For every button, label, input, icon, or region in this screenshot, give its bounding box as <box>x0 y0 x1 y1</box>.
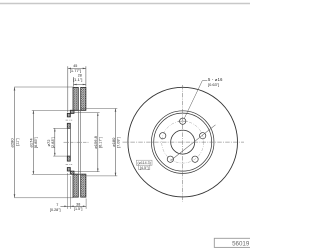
dim 7 extension left <box>67 173 69 209</box>
hat outer circle <box>151 111 214 174</box>
horizontal centerline <box>123 141 245 143</box>
dim 45 extension left <box>67 66 69 112</box>
dim 45 line <box>68 67 86 69</box>
svg-text:⌀280: ⌀280 <box>10 138 15 148</box>
arrow O156.8 top <box>97 113 99 116</box>
bolt hole center dash bottom <box>66 163 73 165</box>
arrow 45 right <box>83 68 86 70</box>
dim O280 line <box>14 87 16 197</box>
dim O156.8 top extension <box>74 112 99 114</box>
svg-text:7: 7 <box>56 203 58 207</box>
dim O174 top extension <box>32 110 71 112</box>
arrow O180 top <box>115 109 117 112</box>
dim O180 line <box>115 109 117 176</box>
dim O280 bottom extension <box>14 197 73 199</box>
svg-text:[11"]: [11"] <box>15 138 19 145</box>
dim O180 bottom extension <box>81 175 117 177</box>
diagonal line through bore <box>171 125 216 161</box>
ring inner edge line bottom <box>70 173 86 175</box>
boxed label O114.3 <box>136 160 152 170</box>
vertical centerline <box>182 85 184 202</box>
arrow 28 right <box>83 84 86 86</box>
svg-text:⌀156.8: ⌀156.8 <box>93 135 98 148</box>
dim 28 line <box>74 84 86 86</box>
arrows for dims <box>14 68 117 208</box>
dim O280 top extension <box>14 86 73 88</box>
arrow O156.8 bottom <box>97 169 99 172</box>
arrow O180 bottom <box>115 173 117 176</box>
dim O72 top extension <box>53 127 67 129</box>
arrow 28 left <box>74 84 77 86</box>
svg-text:[0.63"]: [0.63"] <box>208 82 219 87</box>
inboard plate top (hatched) <box>81 87 86 110</box>
bolt hole center dash top <box>66 119 73 121</box>
flange bottom segment a (hatched) <box>67 156 70 161</box>
bolt hole upper-right <box>200 133 206 139</box>
dim O156.8 line <box>97 113 99 172</box>
svg-text:[7.09"]: [7.09"] <box>116 137 120 148</box>
arrow O280 top <box>14 87 16 90</box>
arrow 45 left <box>68 68 71 70</box>
arrow 38 left <box>70 206 73 208</box>
shoulder bottom (hatched) <box>70 171 74 174</box>
svg-text:[4.5"]: [4.5"] <box>140 166 149 170</box>
vent gap edge right <box>80 110 82 174</box>
dim O156.8 bottom extension <box>74 171 99 173</box>
svg-text:[2.83"]: [2.83"] <box>51 137 55 148</box>
svg-text:⌀174: ⌀174 <box>29 138 34 148</box>
dim O72 bottom extension <box>53 155 67 157</box>
arrow O280 bottom <box>14 194 16 197</box>
flange top segment a (hatched) <box>67 113 70 117</box>
dim 38 line <box>70 205 86 207</box>
bolt circle dash-dot <box>162 121 204 163</box>
vent gap edge left <box>77 110 79 174</box>
dim 7 extension right <box>69 176 71 209</box>
svg-text:56019: 56019 <box>232 241 250 248</box>
top page border line <box>0 3 250 5</box>
bore wall left <box>66 128 68 156</box>
outer diameter circle <box>128 87 238 197</box>
arrow O174 top <box>33 111 35 114</box>
bolt hole upper-left <box>160 133 166 139</box>
flange bottom segment b (hatched) <box>67 168 70 172</box>
svg-text:[6.85"]: [6.85"] <box>34 137 38 148</box>
svg-text:[1.5"]: [1.5"] <box>74 207 82 211</box>
flange top segment b (hatched) <box>67 123 70 128</box>
svg-text:[0.28"]: [0.28"] <box>50 208 61 212</box>
bolt hole top <box>180 118 186 124</box>
dim 7 line left tail <box>60 205 70 207</box>
arrow O72 top <box>54 128 56 131</box>
svg-text:⌀180: ⌀180 <box>111 137 116 147</box>
svg-text:(⌀114.3): (⌀114.3) <box>138 161 151 165</box>
dim 28 extension left <box>73 77 75 87</box>
svg-text:[1.77"]: [1.77"] <box>70 68 81 73</box>
bore wall right <box>69 128 71 156</box>
outboard plate bottom (hatched) <box>73 174 78 197</box>
svg-text:[1.1"]: [1.1"] <box>73 77 82 82</box>
shoulder top (hatched) <box>70 110 74 113</box>
bolt hole lower-right <box>192 156 198 162</box>
dim 38 extension right <box>85 199 87 209</box>
section axis centerline <box>64 141 90 143</box>
top hole tick marks <box>178 120 187 122</box>
dim O174 line <box>32 111 34 175</box>
arrow O174 bottom <box>33 171 35 174</box>
hub flange circle <box>154 113 212 171</box>
ring inner edge line top <box>70 109 86 111</box>
dim O180 top extension <box>81 108 117 110</box>
outboard plate top (hatched) <box>73 87 78 110</box>
center bore circle <box>171 130 195 154</box>
bolt hole lower-left <box>167 156 173 162</box>
svg-text:[6.17"]: [6.17"] <box>98 137 102 148</box>
dim 45 extension right <box>85 66 87 86</box>
arrow O72 bottom <box>54 153 56 156</box>
arrow 38 right <box>83 206 86 208</box>
arrow 7 left <box>64 206 67 208</box>
inboard plate bottom (hatched) <box>81 174 86 197</box>
leader 5-O16 <box>184 81 207 119</box>
dim O174 bottom extension <box>32 173 71 175</box>
dim O72 line <box>54 128 56 156</box>
